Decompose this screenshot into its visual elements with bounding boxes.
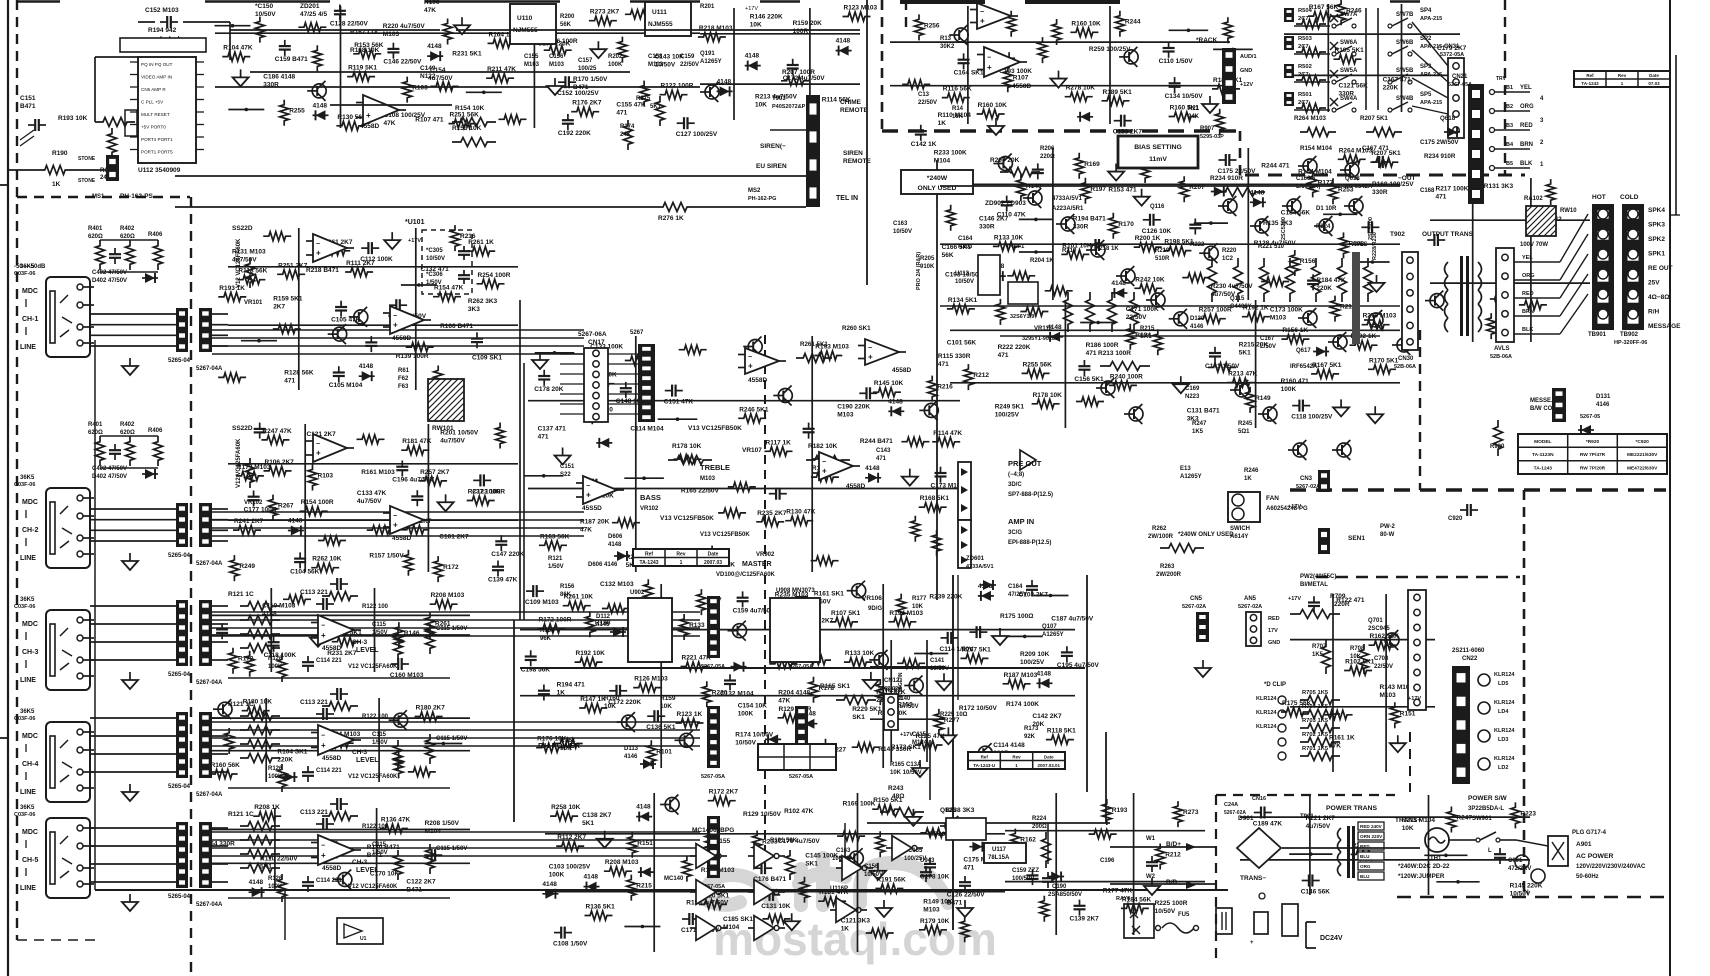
svg-text:IRF6542A: IRF6542A <box>1345 184 1373 190</box>
svg-text:1/50V: 1/50V <box>372 740 388 746</box>
svg-text:R160 10K: R160 10K <box>1071 20 1101 27</box>
svg-text:R704 1K5: R704 1K5 <box>1302 704 1329 710</box>
svg-text:AVLS: AVLS <box>1352 242 1368 248</box>
svg-text:2S211-6060: 2S211-6060 <box>1452 648 1485 654</box>
svg-text:C158: C158 <box>648 54 663 60</box>
svg-text:C156 5K1: C156 5K1 <box>1074 376 1104 383</box>
svg-text:C109 SK1: C109 SK1 <box>472 355 502 362</box>
svg-text:BLK: BLK <box>1520 161 1533 167</box>
svg-text:VD100@/C125FA60K: VD100@/C125FA60K <box>716 572 776 578</box>
svg-text:R251 56K: R251 56K <box>450 112 480 119</box>
svg-text:R205: R205 <box>920 256 935 262</box>
svg-text:C154: C154 <box>430 67 446 74</box>
svg-text:5267-02A: 5267-02A <box>1238 604 1262 610</box>
svg-text:+: + <box>321 851 326 860</box>
svg-text:C189 47K: C189 47K <box>1253 821 1283 828</box>
svg-text:+5V PORT0: +5V PORT0 <box>141 125 166 130</box>
svg-text:CH-1: CH-1 <box>22 316 38 323</box>
svg-text:BLU: BLU <box>1360 874 1370 879</box>
svg-text:−: − <box>980 9 984 16</box>
svg-text:R61: R61 <box>398 368 410 374</box>
svg-text:4148: 4148 <box>717 78 732 85</box>
svg-text:R239 220K: R239 220K <box>929 594 962 601</box>
svg-text:CH-3: CH-3 <box>22 649 38 656</box>
svg-text:C175 2W/50V: C175 2W/50V <box>1420 139 1459 146</box>
svg-text:1/50V: 1/50V <box>372 630 388 636</box>
svg-text:+: + <box>393 321 398 330</box>
svg-text:LEVEL: LEVEL <box>356 867 379 874</box>
svg-text:IRF6542A: IRF6542A <box>1290 364 1318 370</box>
svg-text:D112: D112 <box>596 614 611 620</box>
svg-text:C03F-06: C03F-06 <box>14 716 35 722</box>
svg-text:BRN: BRN <box>1522 309 1534 315</box>
svg-text:CN3: CN3 <box>1300 476 1313 482</box>
svg-text:471: 471 <box>1086 350 1097 357</box>
svg-text:Q126: Q126 <box>940 807 956 814</box>
svg-text:R174 100K: R174 100K <box>1006 701 1039 708</box>
svg-text:TA-1243: TA-1243 <box>1534 466 1553 472</box>
svg-text:B471: B471 <box>573 84 589 91</box>
svg-text:*R920: *R920 <box>1586 439 1600 445</box>
svg-text:KLR124: KLR124 <box>1494 672 1515 678</box>
svg-text:R186 100R: R186 100R <box>1086 342 1119 349</box>
svg-text:R201: R201 <box>700 4 715 10</box>
svg-text:C132 M104: C132 M104 <box>720 690 754 697</box>
svg-text:U1: U1 <box>360 936 367 942</box>
svg-text:R187 20K: R187 20K <box>580 519 610 526</box>
svg-text:+: + <box>822 467 827 476</box>
svg-text:SK1: SK1 <box>852 714 865 721</box>
svg-text:C24A: C24A <box>1224 802 1238 808</box>
svg-text:50-60Hz: 50-60Hz <box>1576 874 1599 880</box>
svg-text:R161: R161 <box>560 737 576 744</box>
svg-text:R189 5K1: R189 5K1 <box>1103 89 1133 96</box>
svg-text:U902: U902 <box>630 590 645 596</box>
svg-text:D606: D606 <box>608 534 623 540</box>
svg-text:STONE: STONE <box>78 178 96 184</box>
svg-text:5267: 5267 <box>630 330 644 336</box>
svg-text:R117 1K: R117 1K <box>766 439 792 446</box>
svg-text:R121 1C: R121 1C <box>228 811 254 818</box>
svg-text:RA102: RA102 <box>1524 196 1543 202</box>
svg-text:5267-05A: 5267-05A <box>701 774 725 780</box>
svg-text:LINE: LINE <box>20 555 36 562</box>
svg-text:M103: M103 <box>1270 315 1287 322</box>
svg-text:+: + <box>393 521 398 530</box>
svg-text:4558D: 4558D <box>748 377 767 384</box>
svg-text:CH-3: CH-3 <box>352 639 368 646</box>
svg-text:ORG: ORG <box>1520 104 1534 110</box>
svg-text:C101 2K7: C101 2K7 <box>439 534 469 541</box>
svg-text:M103: M103 <box>1380 692 1397 699</box>
svg-text:GND: GND <box>1240 68 1252 74</box>
svg-text:PRE OUT: PRE OUT <box>1008 459 1042 468</box>
svg-text:HOT: HOT <box>1592 194 1606 201</box>
svg-text:MS2: MS2 <box>748 188 761 194</box>
svg-text:CH-3: CH-3 <box>352 749 368 756</box>
svg-text:R258 10K: R258 10K <box>551 804 581 811</box>
svg-text:SS22D: SS22D <box>232 425 253 432</box>
svg-text:100/50V: 100/50V <box>1012 876 1034 882</box>
svg-text:RAY8: RAY8 <box>1116 896 1130 902</box>
svg-text:RED: RED <box>1268 616 1280 622</box>
svg-text:910K: 910K <box>920 264 935 270</box>
svg-text:-50—-50dB: -50—-50dB <box>14 264 46 270</box>
svg-text:R262 3K3: R262 3K3 <box>468 298 498 305</box>
svg-text:4u7/50V: 4u7/50V <box>896 704 919 710</box>
svg-text:510R: 510R <box>1155 256 1170 262</box>
svg-text:30K2: 30K2 <box>940 44 955 50</box>
svg-text:CH-3: CH-3 <box>352 859 368 866</box>
svg-text:CN17: CN17 <box>588 339 605 346</box>
svg-text:R190: R190 <box>52 150 68 157</box>
svg-text:R197: R197 <box>1090 186 1106 193</box>
svg-text:1C2: 1C2 <box>1222 256 1234 262</box>
svg-text:A1265Y: A1265Y <box>700 59 722 65</box>
svg-text:48Ω: 48Ω <box>892 793 904 800</box>
svg-text:96K: 96K <box>540 636 552 642</box>
svg-text:+17V: +17V <box>1288 596 1301 602</box>
svg-text:R176 2K7: R176 2K7 <box>572 100 602 107</box>
svg-text:36K5: 36K5 <box>20 597 35 603</box>
svg-text:CN21: CN21 <box>1452 74 1468 80</box>
svg-text:R172: R172 <box>443 564 459 571</box>
svg-text:R200 1K: R200 1K <box>1135 235 1161 242</box>
svg-text:5267-06A: 5267-06A <box>578 331 607 338</box>
svg-text:ZD902 ZD903: ZD902 ZD903 <box>985 200 1026 207</box>
svg-text:D131: D131 <box>1596 394 1611 400</box>
svg-text:APA-215: APA-215 <box>1420 100 1442 106</box>
svg-text:−: − <box>822 459 826 466</box>
svg-text:REMOTE: REMOTE <box>840 107 868 114</box>
svg-text:BLK: BLK <box>1522 327 1533 333</box>
svg-text:C164: C164 <box>1008 584 1023 590</box>
svg-text:SPK2: SPK2 <box>1648 236 1665 243</box>
svg-text:CN22: CN22 <box>1462 656 1478 662</box>
svg-text:RED: RED <box>1520 123 1533 129</box>
svg-text:10K: 10K <box>912 604 924 610</box>
svg-text:*C305: *C305 <box>426 248 443 254</box>
svg-text:5267-02A: 5267-02A <box>1182 604 1206 610</box>
svg-text:A223A/5R1: A223A/5R1 <box>1052 206 1084 212</box>
svg-text:AUD/1: AUD/1 <box>1240 54 1257 60</box>
svg-text:100V 70W: 100V 70W <box>1520 242 1548 248</box>
svg-text:L: L <box>1488 848 1492 854</box>
svg-text:R169: R169 <box>1084 161 1100 168</box>
svg-text:SP7-888-P(12.5): SP7-888-P(12.5) <box>1008 492 1053 498</box>
svg-text:4u7/50V: 4u7/50V <box>440 437 465 444</box>
svg-text:A1265Y: A1265Y <box>1042 632 1064 638</box>
svg-text:B1: B1 <box>1506 85 1513 91</box>
svg-text:3C/G: 3C/G <box>1008 530 1022 536</box>
svg-text:10K: 10K <box>1402 825 1414 832</box>
svg-text:R187 M103: R187 M103 <box>1004 672 1038 679</box>
svg-text:R136 5K1: R136 5K1 <box>586 904 616 911</box>
svg-text:BASS: BASS <box>640 493 661 502</box>
svg-text:R224: R224 <box>1032 816 1047 822</box>
svg-text:VR101: VR101 <box>244 300 263 306</box>
svg-text:78L15A: 78L15A <box>988 855 1010 861</box>
svg-text:TB902: TB902 <box>1620 332 1639 338</box>
svg-text:R244 B471: R244 B471 <box>860 438 893 445</box>
svg-text:C151: C151 <box>20 95 36 102</box>
svg-text:R160 56K: R160 56K <box>211 762 241 769</box>
svg-text:R276 1K: R276 1K <box>658 215 684 222</box>
svg-text:CH-2: CH-2 <box>22 527 38 534</box>
svg-text:R246 5K1: R246 5K1 <box>739 406 769 413</box>
svg-text:C115 1/50V: C115 1/50V <box>436 626 467 632</box>
svg-text:R401: R401 <box>88 422 103 428</box>
svg-text:D606 4146: D606 4146 <box>588 562 618 568</box>
svg-text:C115: C115 <box>372 842 387 848</box>
svg-text:R231 5K1: R231 5K1 <box>452 50 482 57</box>
svg-text:4146: 4146 <box>1190 324 1204 330</box>
svg-text:LINE: LINE <box>20 885 36 892</box>
svg-text:471: 471 <box>876 456 887 462</box>
svg-text:−OUT: −OUT <box>1398 175 1416 182</box>
svg-text:5267-02A: 5267-02A <box>1296 484 1320 490</box>
svg-text:SW5B: SW5B <box>1396 68 1414 74</box>
svg-text:471: 471 <box>938 361 949 368</box>
svg-text:D113: D113 <box>624 746 639 752</box>
svg-text:5K1: 5K1 <box>582 820 594 827</box>
svg-text:V13 VC125FB50K: V13 VC125FB50K <box>688 425 742 432</box>
svg-text:MASTER: MASTER <box>742 561 772 568</box>
svg-text:C167 471: C167 471 <box>1362 145 1389 152</box>
svg-text:TRANS−: TRANS− <box>1240 875 1266 882</box>
svg-text:R273: R273 <box>1183 809 1199 816</box>
svg-text:R402: R402 <box>120 226 135 232</box>
svg-text:LINE: LINE <box>20 344 36 351</box>
svg-text:R194 B471: R194 B471 <box>1073 215 1106 222</box>
svg-text:C114 221: C114 221 <box>316 878 342 884</box>
svg-text:C164 SK1: C164 SK1 <box>954 69 984 76</box>
svg-text:C139 2K7: C139 2K7 <box>1070 916 1100 923</box>
svg-text:17V: 17V <box>1268 628 1278 634</box>
svg-text:R216: R216 <box>937 384 953 391</box>
svg-text:11mV: 11mV <box>1149 156 1167 163</box>
svg-text:R168 100/25V: R168 100/25V <box>1372 181 1414 188</box>
svg-text:R149 330R: R149 330R <box>878 746 911 753</box>
svg-text:C122 2K7: C122 2K7 <box>406 879 436 886</box>
svg-text:R165 SK1: R165 SK1 <box>820 683 850 690</box>
svg-text:V12 VC125FA60K: V12 VC125FA60K <box>236 238 242 288</box>
svg-text:471: 471 <box>538 434 549 441</box>
svg-text:R103: R103 <box>412 85 428 92</box>
svg-text:CH-5: CH-5 <box>22 857 38 864</box>
svg-text:LD3: LD3 <box>1498 737 1508 743</box>
svg-text:−: − <box>868 345 872 352</box>
svg-text:*D CLIP: *D CLIP <box>1264 682 1286 688</box>
svg-text:5267-04A: 5267-04A <box>196 792 223 798</box>
svg-text:R121 1C: R121 1C <box>228 701 254 708</box>
svg-text:R104 47K: R104 47K <box>223 45 253 52</box>
svg-text:100K: 100K <box>549 872 565 879</box>
svg-text:U112 3540909: U112 3540909 <box>138 167 181 174</box>
svg-text:4558D: 4558D <box>322 755 341 762</box>
svg-text:R209 10K: R209 10K <box>1020 651 1050 658</box>
svg-text:4148: 4148 <box>427 43 442 50</box>
svg-text:4u7/50V: 4u7/50V <box>428 75 453 82</box>
svg-text:C146 22/50V: C146 22/50V <box>383 59 422 66</box>
svg-text:C141: C141 <box>930 658 945 664</box>
svg-text:R119 5K1: R119 5K1 <box>348 65 377 72</box>
svg-text:R257 100R: R257 100R <box>1199 307 1232 314</box>
svg-text:KLR124: KLR124 <box>1494 756 1515 762</box>
svg-text:R170: R170 <box>1118 221 1134 228</box>
svg-text:3D/C: 3D/C <box>1008 482 1022 488</box>
svg-text:80-W: 80-W <box>1380 532 1395 538</box>
svg-text:R235 2K7: R235 2K7 <box>757 510 787 517</box>
svg-text:TRANS+: TRANS+ <box>1395 817 1421 824</box>
svg-text:BIAS SETTING: BIAS SETTING <box>1134 144 1182 151</box>
svg-text:LEVEL: LEVEL <box>356 647 379 654</box>
svg-text:+: + <box>321 631 326 640</box>
svg-text:LD2: LD2 <box>1498 765 1508 771</box>
svg-text:Q107: Q107 <box>1042 624 1057 630</box>
svg-text:C03F-06: C03F-06 <box>14 604 35 610</box>
svg-text:R207 5K1: R207 5K1 <box>1360 115 1388 122</box>
svg-text:1K: 1K <box>938 120 947 127</box>
svg-text:1K: 1K <box>841 926 850 933</box>
svg-text:R247: R247 <box>1456 815 1472 822</box>
svg-text:STONE: STONE <box>78 156 96 162</box>
svg-text:R237 100R: R237 100R <box>468 489 501 496</box>
svg-text:R180 2K7: R180 2K7 <box>416 705 446 712</box>
svg-text:620Ω: 620Ω <box>88 234 103 240</box>
svg-text:C703: C703 <box>1374 656 1389 662</box>
svg-text:10/50V: 10/50V <box>893 229 912 235</box>
svg-text:B4: B4 <box>1506 142 1514 148</box>
svg-text:W2: W2 <box>1146 874 1156 880</box>
svg-text:R167 56K: R167 56K <box>1309 4 1339 11</box>
svg-text:−: − <box>321 623 325 630</box>
svg-text:C155: C155 <box>524 54 539 60</box>
svg-text:R161 1K: R161 1K <box>1329 735 1355 742</box>
svg-text:R222 220K: R222 220K <box>998 344 1031 351</box>
svg-text:VR902: VR902 <box>756 552 775 558</box>
svg-text:Rev: Rev <box>676 552 685 558</box>
svg-text:R245: R245 <box>1238 421 1253 427</box>
svg-text:BRN: BRN <box>1520 142 1533 148</box>
svg-text:2SC945: 2SC945 <box>1368 626 1390 632</box>
svg-text:R222: R222 <box>1190 242 1205 248</box>
svg-text:LEVEL: LEVEL <box>356 757 379 764</box>
svg-text:R172 2K7: R172 2K7 <box>709 789 739 796</box>
svg-text:C142 1K: C142 1K <box>911 141 937 148</box>
svg-text:R126 M103: R126 M103 <box>634 676 668 683</box>
svg-text:R228/R230: R228/R230 <box>1372 232 1378 260</box>
svg-text:*RACK: *RACK <box>1196 37 1218 44</box>
svg-text:M103: M103 <box>383 31 400 38</box>
svg-text:R193: R193 <box>1112 807 1128 814</box>
svg-text:T901: T901 <box>1300 814 1314 820</box>
svg-text:R130 47K: R130 47K <box>786 509 816 516</box>
svg-text:*C150: *C150 <box>255 3 273 10</box>
svg-text:TB901: TB901 <box>1588 332 1607 338</box>
svg-text:ZD201: ZD201 <box>300 3 320 10</box>
svg-text:NJM555: NJM555 <box>648 21 673 28</box>
svg-text:C151 47K: C151 47K <box>664 399 694 406</box>
svg-text:R159: R159 <box>660 695 676 702</box>
svg-text:4146: 4146 <box>1596 402 1610 408</box>
svg-text:CN5 AMP R: CN5 AMP R <box>141 87 166 92</box>
svg-text:R247 47K: R247 47K <box>262 428 292 435</box>
svg-text:D402 47/50V: D402 47/50V <box>92 474 127 480</box>
svg-text:KLR124: KLR124 <box>1494 700 1515 706</box>
svg-text:C103 100/25V: C103 100/25V <box>549 864 591 871</box>
svg-text:−: − <box>748 354 752 361</box>
svg-text:10/50V: 10/50V <box>255 11 276 18</box>
svg-text:R267: R267 <box>278 503 294 510</box>
svg-text:R156 1K: R156 1K <box>1282 327 1308 334</box>
svg-text:R219: R219 <box>1155 248 1170 254</box>
svg-text:MS1: MS1 <box>92 194 105 200</box>
svg-text:U111: U111 <box>652 9 667 16</box>
svg-text:R406: R406 <box>148 428 163 434</box>
svg-text:R161 M103: R161 M103 <box>361 469 395 476</box>
svg-text:RED 240V: RED 240V <box>1360 824 1383 829</box>
svg-text:100K: 100K <box>1281 386 1297 393</box>
svg-text:MC14069BPG: MC14069BPG <box>692 827 734 834</box>
svg-text:330R: 330R <box>1372 189 1388 196</box>
svg-text:3295Y1-902LF: 3295Y1-902LF <box>1022 336 1059 342</box>
svg-text:SK1: SK1 <box>805 861 818 868</box>
svg-text:R257 2K7: R257 2K7 <box>420 469 450 476</box>
svg-text:SPK1: SPK1 <box>1648 251 1665 258</box>
svg-text:4148: 4148 <box>542 881 557 888</box>
svg-text:ZD601: ZD601 <box>966 556 985 562</box>
svg-text:R182 10K: R182 10K <box>808 443 838 450</box>
svg-text:C402 47/50V: C402 47/50V <box>92 466 127 472</box>
svg-text:OUTPUT TRANS: OUTPUT TRANS <box>1422 231 1474 238</box>
svg-text:Rev: Rev <box>1012 755 1021 760</box>
svg-text:C03F-06: C03F-06 <box>14 482 35 488</box>
svg-text:R122 100: R122 100 <box>362 604 389 610</box>
svg-text:*240W ONLY USED: *240W ONLY USED <box>1178 531 1234 538</box>
svg-text:R154 10K: R154 10K <box>455 105 485 112</box>
svg-text:4558D: 4558D <box>360 123 379 130</box>
svg-text:1/50V: 1/50V <box>426 280 442 286</box>
svg-text:10/50V: 10/50V <box>426 256 445 262</box>
svg-text:52B-06A: 52B-06A <box>1394 364 1416 370</box>
svg-text:R158: R158 <box>540 628 555 634</box>
svg-text:C152 100/25V: C152 100/25V <box>557 90 599 97</box>
svg-text:R243: R243 <box>888 785 904 792</box>
svg-text:R179 10K: R179 10K <box>920 918 950 925</box>
svg-text:+12V: +12V <box>1240 82 1253 88</box>
svg-text:BI/METAL: BI/METAL <box>1300 582 1328 588</box>
svg-text:Q617: Q617 <box>1296 348 1311 354</box>
svg-text:5267-04A: 5267-04A <box>196 561 223 567</box>
svg-text:F63: F63 <box>398 384 409 390</box>
svg-text:R204 4148: R204 4148 <box>778 690 810 697</box>
svg-text:U116P: U116P <box>830 886 848 892</box>
svg-text:C114 221: C114 221 <box>316 658 342 664</box>
svg-text:86K: 86K <box>560 592 572 598</box>
svg-text:2007.03.01: 2007.03.01 <box>1038 763 1061 768</box>
svg-text:SPK4: SPK4 <box>1648 207 1665 214</box>
svg-text:R151: R151 <box>1400 710 1416 717</box>
svg-text:N223: N223 <box>1185 394 1200 400</box>
svg-text:PW-2: PW-2 <box>1380 524 1396 530</box>
svg-text:R246: R246 <box>1244 468 1259 474</box>
svg-text:22/50V: 22/50V <box>1374 664 1393 670</box>
svg-text:C159: C159 <box>680 54 695 60</box>
svg-text:APA-215: APA-215 <box>1298 0 1320 2</box>
svg-text:V13 VC125FB50K: V13 VC125FB50K <box>700 532 750 538</box>
svg-text:MULT RESET: MULT RESET <box>141 112 170 117</box>
